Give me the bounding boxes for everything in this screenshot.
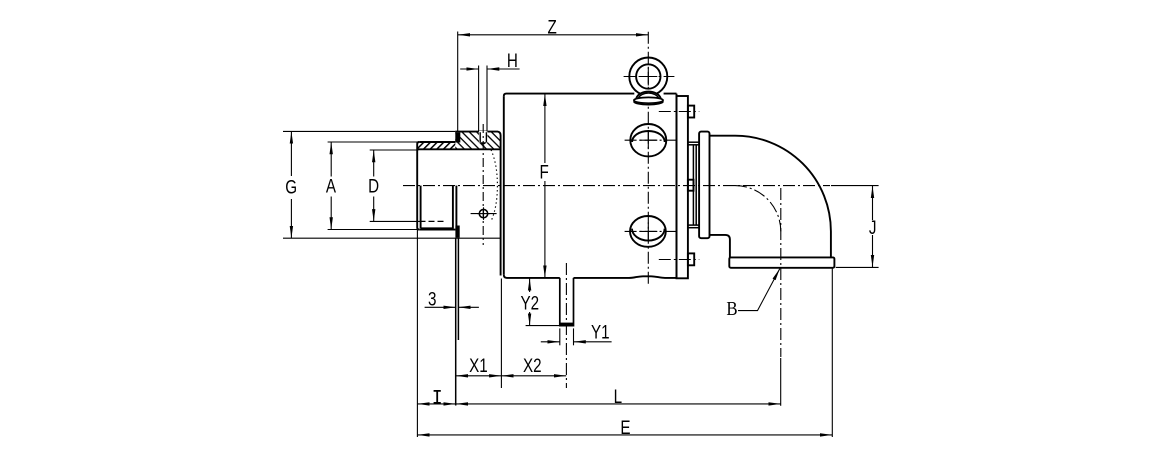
grease pin centerline xyxy=(482,124,484,245)
dimension Z xyxy=(458,32,649,132)
lower port boss xyxy=(630,216,666,247)
elbow body xyxy=(710,136,831,258)
dimension J xyxy=(831,186,879,268)
svg-text:B: B xyxy=(726,298,737,321)
svg-text:Y2: Y2 xyxy=(521,292,540,314)
rotor thread hatch band xyxy=(418,143,455,149)
gasket between flanges xyxy=(688,142,699,228)
stuffing box nut (hatched block) xyxy=(455,132,500,149)
svg-text:3: 3 xyxy=(428,288,436,310)
eyebolt centerline xyxy=(624,76,675,78)
dimension I xyxy=(417,230,455,437)
dimension D xyxy=(370,150,420,221)
dimension F xyxy=(544,94,546,278)
drain stud xyxy=(560,278,574,345)
dimension X1 xyxy=(456,279,502,389)
eyebolt collar dome xyxy=(636,92,661,99)
vertical axis centerline through eyebolt and ports xyxy=(647,32,649,284)
dimension L xyxy=(456,358,781,406)
svg-text:Z: Z xyxy=(548,16,558,38)
black gap notch xyxy=(455,133,460,238)
svg-text:X2: X2 xyxy=(523,354,542,376)
housing body xyxy=(501,94,677,278)
upper port centerline xyxy=(625,139,677,141)
dimension A xyxy=(328,142,418,230)
eyebolt washer xyxy=(634,97,663,104)
elbow flange plate xyxy=(699,132,709,239)
flange bolt centerlines xyxy=(659,112,700,260)
dimension H xyxy=(460,66,519,132)
elbow axis centerline xyxy=(735,186,781,357)
lower port centerline xyxy=(625,230,677,232)
dotted break arc xyxy=(491,150,497,222)
svg-text:Y1: Y1 xyxy=(591,321,610,343)
upper port boss xyxy=(630,124,666,156)
dimension X2 xyxy=(501,375,566,377)
svg-text:L: L xyxy=(614,385,623,407)
hidden thread line (dashed) xyxy=(420,220,447,222)
svg-text:H: H xyxy=(507,49,518,71)
flange bolt hole xyxy=(479,209,487,217)
svg-text:E: E xyxy=(620,416,630,438)
dimension G xyxy=(283,131,501,238)
drain stud centerline xyxy=(565,263,567,388)
dimension Y2 xyxy=(526,278,560,325)
svg-text:D: D xyxy=(368,175,379,197)
rotor flange xyxy=(677,96,695,278)
dimension 3 xyxy=(425,238,479,405)
centerline main axis xyxy=(403,185,830,187)
dimension E xyxy=(417,268,832,437)
svg-text:J: J xyxy=(869,216,877,238)
rotor pipe outline xyxy=(417,142,500,230)
label B with leader xyxy=(738,269,780,311)
svg-text:G: G xyxy=(285,176,297,198)
svg-text:X1: X1 xyxy=(469,354,488,376)
dimension Y1 xyxy=(541,341,612,343)
eyebolt xyxy=(629,58,667,96)
grease pin in slot xyxy=(479,131,488,147)
svg-text:A: A xyxy=(326,175,336,197)
svg-text:F: F xyxy=(539,161,548,183)
elbow bottom flange xyxy=(729,257,834,267)
center tick crosses xyxy=(477,68,657,241)
